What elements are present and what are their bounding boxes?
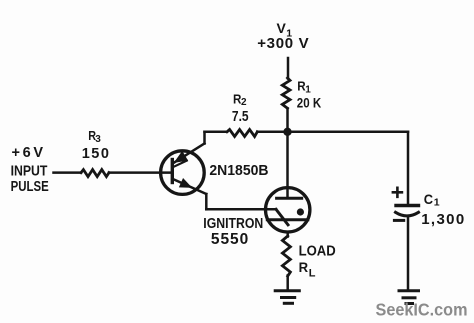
svg-text:LOAD: LOAD [299, 243, 336, 259]
resistor RL load [282, 236, 290, 276]
svg-text:V: V [277, 20, 287, 36]
ignitron V1 body [266, 188, 310, 232]
label C1 [421, 191, 464, 228]
wire anode vertical [286, 132, 289, 199]
wire top rail left segment [205, 131, 228, 134]
transistor Q1 emitter arrow [180, 179, 191, 187]
svg-text:3: 3 [95, 134, 101, 145]
transistor Q1 body [161, 151, 205, 195]
label RL LOAD [299, 243, 336, 279]
svg-text:L: L [309, 267, 316, 279]
transistor Q1 base bar [171, 160, 174, 183]
wire corner to transistor collector [203, 132, 206, 144]
svg-text:1: 1 [305, 85, 311, 96]
label R2 value 7.5 [232, 108, 249, 125]
node input label [11, 145, 49, 195]
svg-text:PULSE: PULSE [11, 179, 49, 195]
ignitron ignitor electrode [276, 209, 288, 225]
resistor R3 [81, 170, 109, 177]
wire RL to ground [286, 276, 289, 291]
ignitron grid dot [297, 208, 304, 215]
wire top rail right segment [257, 131, 408, 134]
wire cathode to RL [286, 232, 289, 237]
transistor Q1 collector arrow [175, 152, 188, 162]
ground right [399, 291, 419, 304]
label R3 [88, 128, 101, 145]
svg-text:INPUT: INPUT [11, 163, 48, 179]
capacitor C1 top plate [396, 204, 419, 207]
wire emitter to ignitron ignitor [206, 208, 276, 211]
wire C1 to ground [407, 216, 410, 290]
svg-text:1: 1 [434, 197, 440, 209]
svg-text:SeekIC.com: SeekIC.com [376, 300, 468, 320]
wire emitter diagonal [172, 179, 206, 194]
wire right rail down to C1 [407, 132, 410, 205]
label Q1 2N1850B [209, 163, 268, 179]
svg-text:+300 V: +300 V [257, 35, 309, 52]
resistor R2 [227, 130, 257, 137]
label R2 [233, 91, 247, 107]
svg-text:150: 150 [82, 146, 109, 162]
label R3 value 150 [82, 146, 109, 162]
capacitor C1 bottom plate [396, 212, 419, 216]
capacitor C1 plus sign [393, 188, 402, 197]
node V1 supply label [257, 20, 309, 52]
svg-text:R: R [299, 259, 309, 275]
wire emitter corner vertical [205, 194, 208, 209]
junction node [283, 128, 291, 136]
svg-text:2N1850B: 2N1850B [209, 163, 268, 179]
svg-text:20 K: 20 K [297, 95, 322, 110]
svg-text:7.5: 7.5 [232, 108, 249, 125]
svg-text:2: 2 [241, 97, 247, 108]
capacitor C1 minus sign [394, 219, 403, 222]
svg-text:C: C [424, 191, 433, 207]
svg-text:+6V: +6V [12, 145, 44, 161]
svg-text:IGNITRON: IGNITRON [203, 216, 263, 232]
ignitron anode bar [277, 197, 302, 200]
wire supply vertical [287, 58, 290, 79]
wire R1 to junction [286, 109, 289, 132]
resistor R1 [282, 78, 290, 108]
ground left [275, 291, 299, 304]
ignitron cathode pool [267, 218, 308, 221]
transistor Q1 collector arrow lower barb [173, 161, 187, 168]
svg-text:1,300: 1,300 [421, 211, 464, 228]
svg-text:5550: 5550 [211, 231, 248, 248]
label R1 [297, 79, 311, 96]
label R1 value 20K [297, 95, 322, 110]
wire collector diagonal [174, 144, 204, 163]
wire R3 to base [109, 171, 172, 174]
label ignitron [203, 216, 263, 248]
watermark SeekIC.com [376, 300, 468, 320]
wire input to R3 [54, 171, 82, 174]
